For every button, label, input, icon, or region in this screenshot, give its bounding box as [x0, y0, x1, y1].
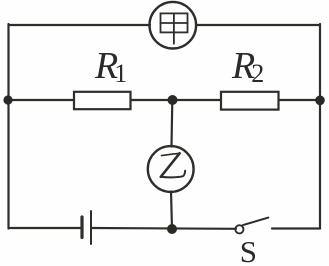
wire vertical branch below meter yi	[171, 192, 172, 229]
node middle junction	[168, 95, 178, 105]
wire top-right segment	[196, 24, 320, 26]
meter yi U2 circle	[148, 146, 194, 192]
wire bottom-left segment	[9, 227, 81, 229]
wire between R1 and R2	[131, 99, 222, 101]
wire left vertical	[7, 24, 9, 229]
resistor R2 box	[221, 92, 279, 110]
label R2	[232, 44, 264, 89]
battery positive plate (long)	[90, 211, 92, 244]
resistor R1 box	[74, 92, 131, 109]
label R1	[95, 44, 127, 89]
meter jia U1 circle	[150, 2, 197, 49]
wire middle-left segment	[9, 99, 75, 101]
switch S pivot circle	[235, 225, 243, 233]
node left junction	[3, 95, 12, 104]
wire battery to switch	[92, 227, 236, 230]
wire right vertical	[319, 24, 321, 229]
node bottom junction	[167, 224, 177, 234]
node right junction	[315, 96, 325, 106]
wire vertical branch above meter yi	[170, 100, 173, 147]
meter yi glyph (CJK yi)	[161, 153, 185, 177]
meter jia glyph (CJK jia)	[161, 13, 188, 43]
label S	[240, 234, 257, 266]
wire switch to bottom-right corner	[272, 227, 320, 229]
wire top-left segment	[9, 24, 151, 26]
wire middle-right segment	[279, 99, 321, 101]
battery negative plate (short)	[80, 217, 83, 238]
switch S lever	[243, 218, 268, 226]
